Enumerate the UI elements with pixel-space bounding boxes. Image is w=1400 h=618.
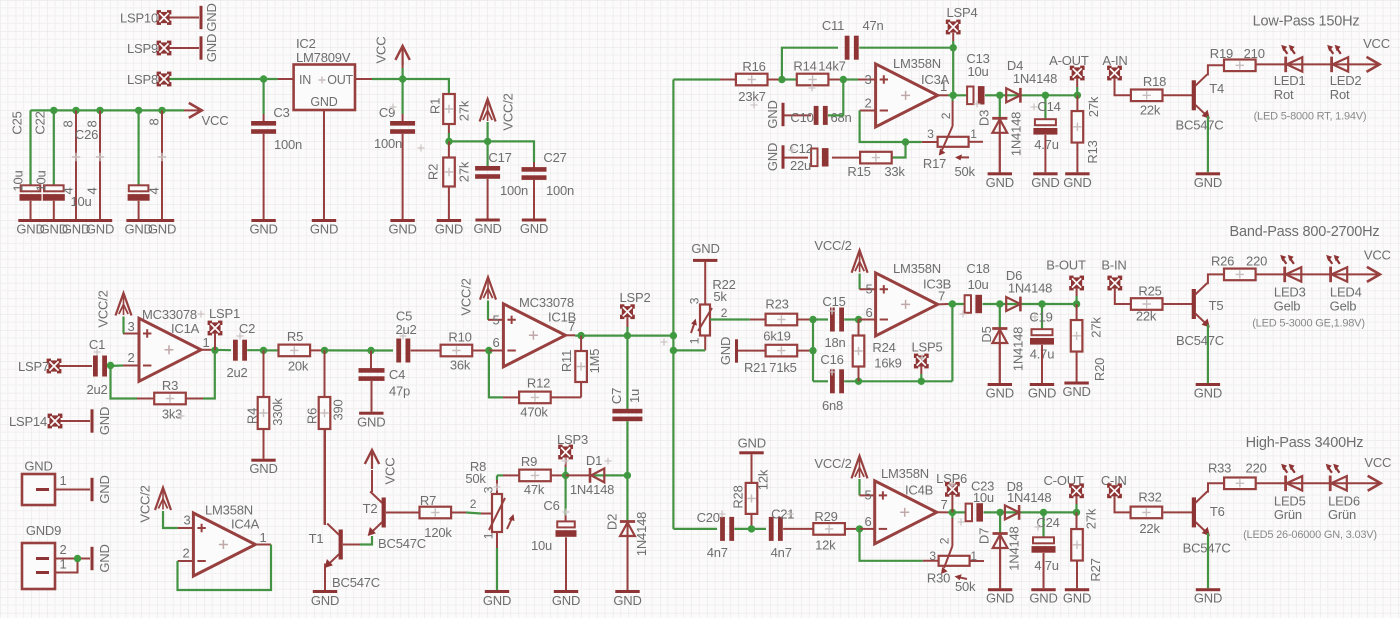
label A-IN — [1102, 53, 1127, 68]
junction — [949, 509, 956, 516]
svg-text:IC3A: IC3A — [921, 72, 950, 87]
wire to VCC — [402, 68, 404, 79]
ground — [1029, 588, 1057, 606]
pin R21 right — [797, 350, 813, 352]
pin IC4A in+ — [178, 527, 194, 529]
wire to D5 — [999, 304, 1001, 328]
svg-text:BC547C: BC547C — [1176, 333, 1224, 348]
svg-text:47p: 47p — [389, 384, 410, 399]
op-amp IC3A LM358N — [864, 56, 949, 127]
svg-text:GND: GND — [311, 593, 339, 608]
junction — [996, 300, 1003, 307]
wire C23 to D8 — [984, 511, 1001, 513]
solder pad — [48, 414, 63, 429]
wire T6 emitter to ground — [1207, 533, 1209, 588]
wire IC4A feedback loop — [178, 545, 272, 591]
junction — [158, 107, 165, 114]
pin C10 left — [785, 114, 812, 116]
svg-text:3k3: 3k3 — [162, 407, 182, 422]
svg-text:10u: 10u — [973, 490, 994, 505]
capacitor C27 100n — [522, 150, 575, 198]
wire to IC3A — [843, 78, 858, 80]
svg-text:8: 8 — [147, 118, 162, 125]
svg-text:IN: IN — [299, 73, 311, 87]
pin R22 top to ground — [704, 262, 706, 305]
svg-text:R29: R29 — [814, 509, 837, 524]
LED LED5 Grün — [1274, 464, 1306, 522]
svg-text:IC3B: IC3B — [923, 277, 951, 292]
pin D3 stem — [999, 119, 1001, 172]
junction — [1073, 300, 1080, 307]
label LSP2 — [619, 290, 650, 305]
ground — [91, 544, 113, 572]
resistor R9 47k — [519, 454, 551, 497]
op-amp IC1B MC33078 — [492, 295, 576, 367]
wire VCC/2 net — [449, 133, 534, 162]
diode D4 1N4148 — [1006, 58, 1057, 103]
origin crosses — [94, 85, 1042, 531]
svg-text:120k: 120k — [424, 525, 452, 540]
junction — [996, 509, 1003, 516]
svg-text:2: 2 — [182, 546, 189, 561]
solder pad — [946, 20, 961, 35]
svg-text:R16: R16 — [742, 59, 765, 74]
ground — [249, 219, 277, 237]
svg-text:C12: C12 — [789, 141, 812, 156]
label VCC/2 — [138, 485, 153, 522]
pin IC1B in- — [489, 350, 504, 352]
pin T1 emitter to ground — [324, 564, 326, 591]
svg-text:27k: 27k — [1089, 317, 1104, 338]
wire output — [948, 511, 966, 513]
diode D7 1N4148 — [977, 526, 1022, 570]
pin R24 bottom — [858, 367, 860, 381]
pin C12 left — [785, 157, 809, 159]
capacitor C7 1u — [609, 388, 642, 421]
wire to C15 — [813, 318, 828, 320]
potentiometer R17 50k — [923, 101, 977, 179]
wire LSP7 to C1 — [60, 365, 93, 367]
pin VCC — [402, 62, 404, 68]
resistor R13 27k — [1072, 96, 1101, 163]
pin R8 top — [496, 479, 498, 494]
pin D5 to ground — [999, 344, 1001, 384]
wire D4 to A-OUT node — [1000, 94, 1078, 96]
svg-text:10u: 10u — [11, 170, 26, 191]
wire LSP2 — [626, 327, 628, 336]
svg-text:GND: GND — [552, 593, 580, 608]
svg-text:(LED 5-8000 RT, 1.94V): (LED 5-8000 RT, 1.94V) — [1254, 110, 1367, 122]
svg-text:LSP5: LSP5 — [911, 340, 942, 355]
svg-text:GND: GND — [388, 222, 416, 237]
svg-text:LED4: LED4 — [1330, 285, 1362, 300]
svg-text:R19: R19 — [1210, 46, 1233, 61]
solder pad — [1107, 66, 1122, 81]
pin GND9-2 — [55, 558, 90, 560]
svg-text:16k9: 16k9 — [874, 356, 901, 371]
svg-text:VCC/2: VCC/2 — [814, 238, 851, 253]
svg-text:12k: 12k — [755, 469, 770, 490]
svg-text:GND: GND — [249, 461, 277, 476]
solder pad — [620, 304, 635, 319]
svg-text:6n8: 6n8 — [822, 398, 843, 413]
svg-text:18n: 18n — [824, 335, 845, 350]
pin IC4B in+ — [860, 494, 875, 496]
wire LSP10 to GND — [170, 17, 200, 19]
label VCC — [1364, 455, 1391, 470]
ground — [310, 219, 338, 237]
svg-text:6: 6 — [492, 335, 499, 350]
svg-text:100n: 100n — [374, 136, 402, 151]
pin R30-1 — [970, 560, 984, 562]
svg-text:VCC: VCC — [1363, 36, 1390, 51]
pin 1 — [59, 557, 66, 572]
wire LSP8 to IC2 IN — [170, 78, 278, 80]
junction — [748, 525, 755, 532]
op-amp IC3B LM358N — [865, 261, 951, 336]
svg-text:VCC/2: VCC/2 — [138, 485, 153, 522]
svg-text:IC1A: IC1A — [171, 321, 200, 336]
svg-text:GND: GND — [310, 95, 337, 109]
svg-text:R10: R10 — [448, 330, 471, 345]
pin R6 top — [324, 350, 326, 397]
wire out to R17 wiper — [951, 95, 953, 101]
svg-text:5: 5 — [865, 282, 872, 297]
pin R5 right — [310, 349, 325, 351]
supply VCC — [1368, 476, 1381, 491]
svg-text:10u: 10u — [34, 170, 49, 191]
svg-text:R1: R1 — [428, 98, 443, 114]
pin D7 stem — [999, 534, 1001, 588]
capacitor C20 4n7 — [697, 510, 735, 560]
pin C3 top — [263, 114, 265, 121]
svg-text:VCC: VCC — [202, 113, 229, 128]
svg-text:R9: R9 — [521, 454, 537, 469]
junction — [1073, 509, 1080, 516]
pin R18 to T4 base — [1163, 94, 1193, 96]
wire VCC/2 to pin5 — [858, 479, 860, 495]
capacitor C1 2u2 — [86, 337, 107, 397]
junction — [1042, 92, 1049, 99]
wire T4 collector to R19 — [1207, 65, 1224, 74]
svg-text:C11: C11 — [822, 18, 844, 33]
pin R7 right — [451, 512, 466, 514]
pin R17-3 — [922, 141, 938, 143]
pin R24 top — [858, 320, 860, 336]
resistor R19 210 — [1210, 46, 1265, 71]
wire C16 to output — [844, 380, 952, 382]
svg-text:GND: GND — [1063, 591, 1091, 606]
resistor R26 220 — [1211, 254, 1267, 281]
svg-text:68n: 68n — [830, 110, 851, 125]
wire to C19 — [1041, 304, 1043, 329]
capacitor C16 6n8 — [820, 352, 844, 413]
pin IC3B in- — [859, 319, 876, 321]
supply VCC/2 — [852, 456, 868, 479]
ground — [91, 475, 113, 503]
wire VCC/2 to IC4A pin3 — [163, 511, 178, 528]
label 16k9 — [874, 356, 901, 371]
svg-text:GND: GND — [613, 593, 641, 608]
note LED 5-8000 — [1254, 110, 1367, 122]
capacitor C17 100n — [475, 150, 528, 198]
svg-text:C24: C24 — [1036, 515, 1059, 530]
diode D3 1N4148 — [977, 110, 1024, 156]
pin R15 left — [845, 157, 860, 159]
pin IC3A in+ — [858, 79, 876, 81]
svg-text:C15: C15 — [822, 294, 845, 309]
pin R17-1 — [969, 141, 983, 143]
svg-text:50k: 50k — [955, 579, 976, 594]
pin R32 to T6 base — [1163, 511, 1192, 513]
capacitor C22 10u — [33, 111, 65, 200]
ground — [1031, 172, 1059, 190]
svg-text:5: 5 — [864, 488, 871, 503]
svg-text:27k: 27k — [457, 161, 472, 182]
svg-text:330k: 330k — [270, 398, 285, 426]
solder pad — [945, 482, 960, 497]
wire D6 to B-OUT node — [1000, 303, 1077, 305]
svg-text:GND: GND — [97, 407, 112, 435]
wire C2 to node — [247, 349, 263, 351]
ground — [520, 219, 548, 237]
wire main distribution trunk — [672, 80, 674, 529]
svg-text:2: 2 — [721, 306, 728, 320]
svg-text:2: 2 — [470, 497, 477, 511]
pin C4 to ground — [371, 381, 373, 412]
ground — [357, 412, 385, 430]
connector GND9 — [22, 523, 61, 589]
wire to D7 — [999, 512, 1001, 533]
power pins IC3P (8/4) — [85, 110, 105, 219]
capacitor C6 10u — [531, 498, 577, 553]
pin IC4A in- — [178, 560, 194, 562]
LED LED4 Gelb — [1326, 255, 1362, 314]
pin R27 top — [1076, 512, 1078, 529]
ground — [1062, 382, 1090, 400]
svg-text:1N4148: 1N4148 — [1006, 526, 1021, 570]
svg-text:OUT: OUT — [327, 73, 353, 87]
junction C3 node — [260, 75, 267, 82]
svg-text:Band-Pass 800-2700Hz: Band-Pass 800-2700Hz — [1230, 224, 1380, 240]
svg-text:71k5: 71k5 — [769, 360, 796, 375]
svg-text:VCC/2: VCC/2 — [96, 290, 111, 327]
svg-text:GND: GND — [986, 175, 1014, 190]
title Low-Pass 150Hz — [1253, 13, 1360, 29]
pin C26 to ground — [138, 201, 140, 219]
svg-text:Gelb: Gelb — [1330, 299, 1357, 314]
svg-text:47n: 47n — [862, 18, 883, 33]
junction — [321, 347, 328, 354]
svg-text:BC547C: BC547C — [378, 536, 426, 551]
pin C9 to ground — [402, 134, 404, 219]
svg-text:GND: GND — [483, 593, 511, 608]
svg-text:4: 4 — [147, 187, 162, 194]
junction — [135, 107, 142, 114]
svg-text:GND: GND — [520, 221, 548, 236]
wire C20 to C21 — [734, 528, 766, 530]
pin R25 to T5 base — [1163, 303, 1193, 305]
svg-text:1u: 1u — [627, 389, 642, 403]
svg-text:20k: 20k — [288, 359, 309, 374]
svg-text:R30: R30 — [927, 571, 950, 586]
wire C18 to D6 — [983, 303, 1001, 305]
svg-text:C4: C4 — [389, 367, 405, 382]
wire C12 R15 — [832, 157, 845, 159]
pin T2 base — [386, 512, 404, 514]
svg-text:R25: R25 — [1138, 284, 1161, 299]
svg-text:390: 390 — [331, 399, 346, 420]
transistor T4 BC547C — [1176, 74, 1225, 132]
svg-text:GND: GND — [765, 143, 780, 171]
label GND — [691, 241, 719, 256]
pin LSP5 — [920, 367, 922, 374]
wire D1 to node — [589, 474, 627, 476]
label VCC/2 — [814, 456, 851, 471]
svg-text:VCC: VCC — [1364, 455, 1391, 470]
pin R22 bottom — [704, 336, 706, 351]
svg-text:VCC/2: VCC/2 — [814, 456, 851, 471]
capacitor C21 4n7 — [769, 507, 795, 561]
pin R20 to ground — [1076, 352, 1078, 382]
svg-text:GND: GND — [738, 436, 766, 451]
resistor R3 3k3 — [154, 378, 186, 422]
transistor T2 BC547C — [363, 492, 426, 552]
wire to C17 — [487, 141, 489, 166]
svg-text:R21: R21 — [744, 360, 767, 375]
wire R8 to ground — [496, 548, 498, 590]
power pins IC4P (8/4) — [147, 110, 167, 219]
junction — [485, 347, 492, 354]
svg-text:D5: D5 — [979, 326, 994, 342]
ground — [613, 590, 641, 608]
svg-text:Rot: Rot — [1330, 87, 1350, 102]
resistor R25 22k — [1131, 284, 1163, 324]
svg-text:2u2: 2u2 — [86, 382, 107, 397]
svg-text:14k7: 14k7 — [818, 59, 845, 74]
pin IC2 OUT — [355, 78, 372, 80]
capacitor C10 68n — [790, 106, 851, 125]
solder pad — [208, 321, 223, 336]
pin R28 top to ground — [751, 454, 753, 483]
junction — [367, 347, 374, 354]
diode D8 1N4148 — [1005, 479, 1051, 520]
pin R21 left — [738, 350, 766, 352]
svg-text:R24: R24 — [872, 340, 895, 355]
svg-text:T1: T1 — [309, 531, 324, 546]
supply VCC/2 — [852, 250, 868, 273]
resistor R14 14k7 — [793, 59, 845, 86]
label LSP7 — [18, 359, 49, 374]
svg-text:GND: GND — [357, 414, 385, 429]
svg-text:VCC: VCC — [383, 458, 398, 485]
pin R11 top — [580, 336, 582, 351]
capacitor C19 4.7u — [1029, 309, 1054, 361]
svg-text:GND: GND — [24, 459, 52, 474]
junction — [1040, 509, 1047, 516]
junction — [260, 347, 267, 354]
svg-text:1: 1 — [59, 473, 66, 488]
svg-text:LSP8: LSP8 — [127, 72, 158, 87]
ground — [16, 219, 44, 237]
resistor R32 22k — [1131, 490, 1163, 537]
svg-text:MC33078: MC33078 — [519, 295, 574, 310]
ground — [91, 407, 113, 435]
label LSP6 — [936, 471, 967, 486]
svg-text:210: 210 — [1244, 46, 1265, 61]
ground — [200, 34, 220, 62]
svg-text:C3: C3 — [273, 105, 289, 120]
solder pad — [914, 354, 929, 369]
pin IC1A out — [201, 349, 211, 351]
svg-text:(LED 5-3000 GE,1.98V): (LED 5-3000 GE,1.98V) — [1252, 318, 1365, 330]
wire C21 to R29 — [783, 528, 814, 530]
svg-text:2: 2 — [59, 542, 66, 557]
wire VCC/2 to pin3 — [122, 317, 124, 334]
pin R12 left — [503, 396, 519, 398]
diode D5 1N4148 — [979, 326, 1025, 371]
svg-text:A-IN: A-IN — [1102, 53, 1127, 68]
label A-OUT — [1049, 53, 1089, 68]
svg-text:D1: D1 — [586, 453, 602, 468]
svg-text:LSP9: LSP9 — [127, 41, 158, 56]
ground — [1063, 172, 1091, 190]
svg-text:50k: 50k — [955, 164, 976, 179]
pin C6 top — [565, 515, 567, 522]
svg-text:R15: R15 — [847, 164, 870, 179]
svg-text:GND: GND — [249, 222, 277, 237]
transistor T5 BC547C — [1176, 283, 1224, 348]
solder pad — [1070, 66, 1085, 81]
capacitor C26 10u — [70, 127, 149, 209]
svg-text:50k: 50k — [465, 471, 486, 486]
solder pad — [1069, 276, 1084, 291]
wire R5 to C5 — [325, 349, 372, 351]
junction — [562, 472, 569, 479]
wire feedback to R3 — [111, 366, 138, 399]
svg-text:R13: R13 — [1085, 140, 1100, 163]
label B-IN — [1101, 258, 1126, 273]
svg-text:100n: 100n — [274, 137, 302, 152]
title High-Pass 3400Hz — [1246, 435, 1364, 451]
pin C24 to ground — [1043, 553, 1045, 588]
svg-text:LM358N: LM358N — [893, 56, 941, 71]
svg-text:1N4148: 1N4148 — [1008, 280, 1052, 295]
note LED5 26-06000 — [1243, 529, 1377, 541]
svg-text:6: 6 — [864, 514, 871, 529]
label LSP4 — [946, 5, 977, 20]
pin R8 bottom — [496, 532, 498, 548]
diode D1 1N4148 — [570, 453, 614, 497]
junction — [484, 138, 491, 145]
capacitor C11 47n — [822, 18, 884, 60]
svg-text:GND: GND — [986, 591, 1014, 606]
svg-text:GND: GND — [204, 3, 219, 31]
svg-text:IC1B: IC1B — [548, 310, 576, 325]
wire C5 to R10 — [411, 350, 440, 352]
wire feedback to R30 — [860, 529, 923, 561]
svg-text:MC33078: MC33078 — [142, 307, 197, 322]
solder pad — [1107, 276, 1122, 291]
junction — [670, 347, 677, 354]
pin R11 bottom — [580, 382, 582, 397]
svg-text:R5: R5 — [287, 329, 303, 344]
wire trunk to R22 — [673, 349, 705, 351]
junction — [840, 76, 847, 83]
op-amp IC1A MC33078 — [127, 307, 209, 381]
svg-text:LSP10: LSP10 — [120, 11, 158, 26]
pin D1 cathode — [566, 474, 589, 476]
